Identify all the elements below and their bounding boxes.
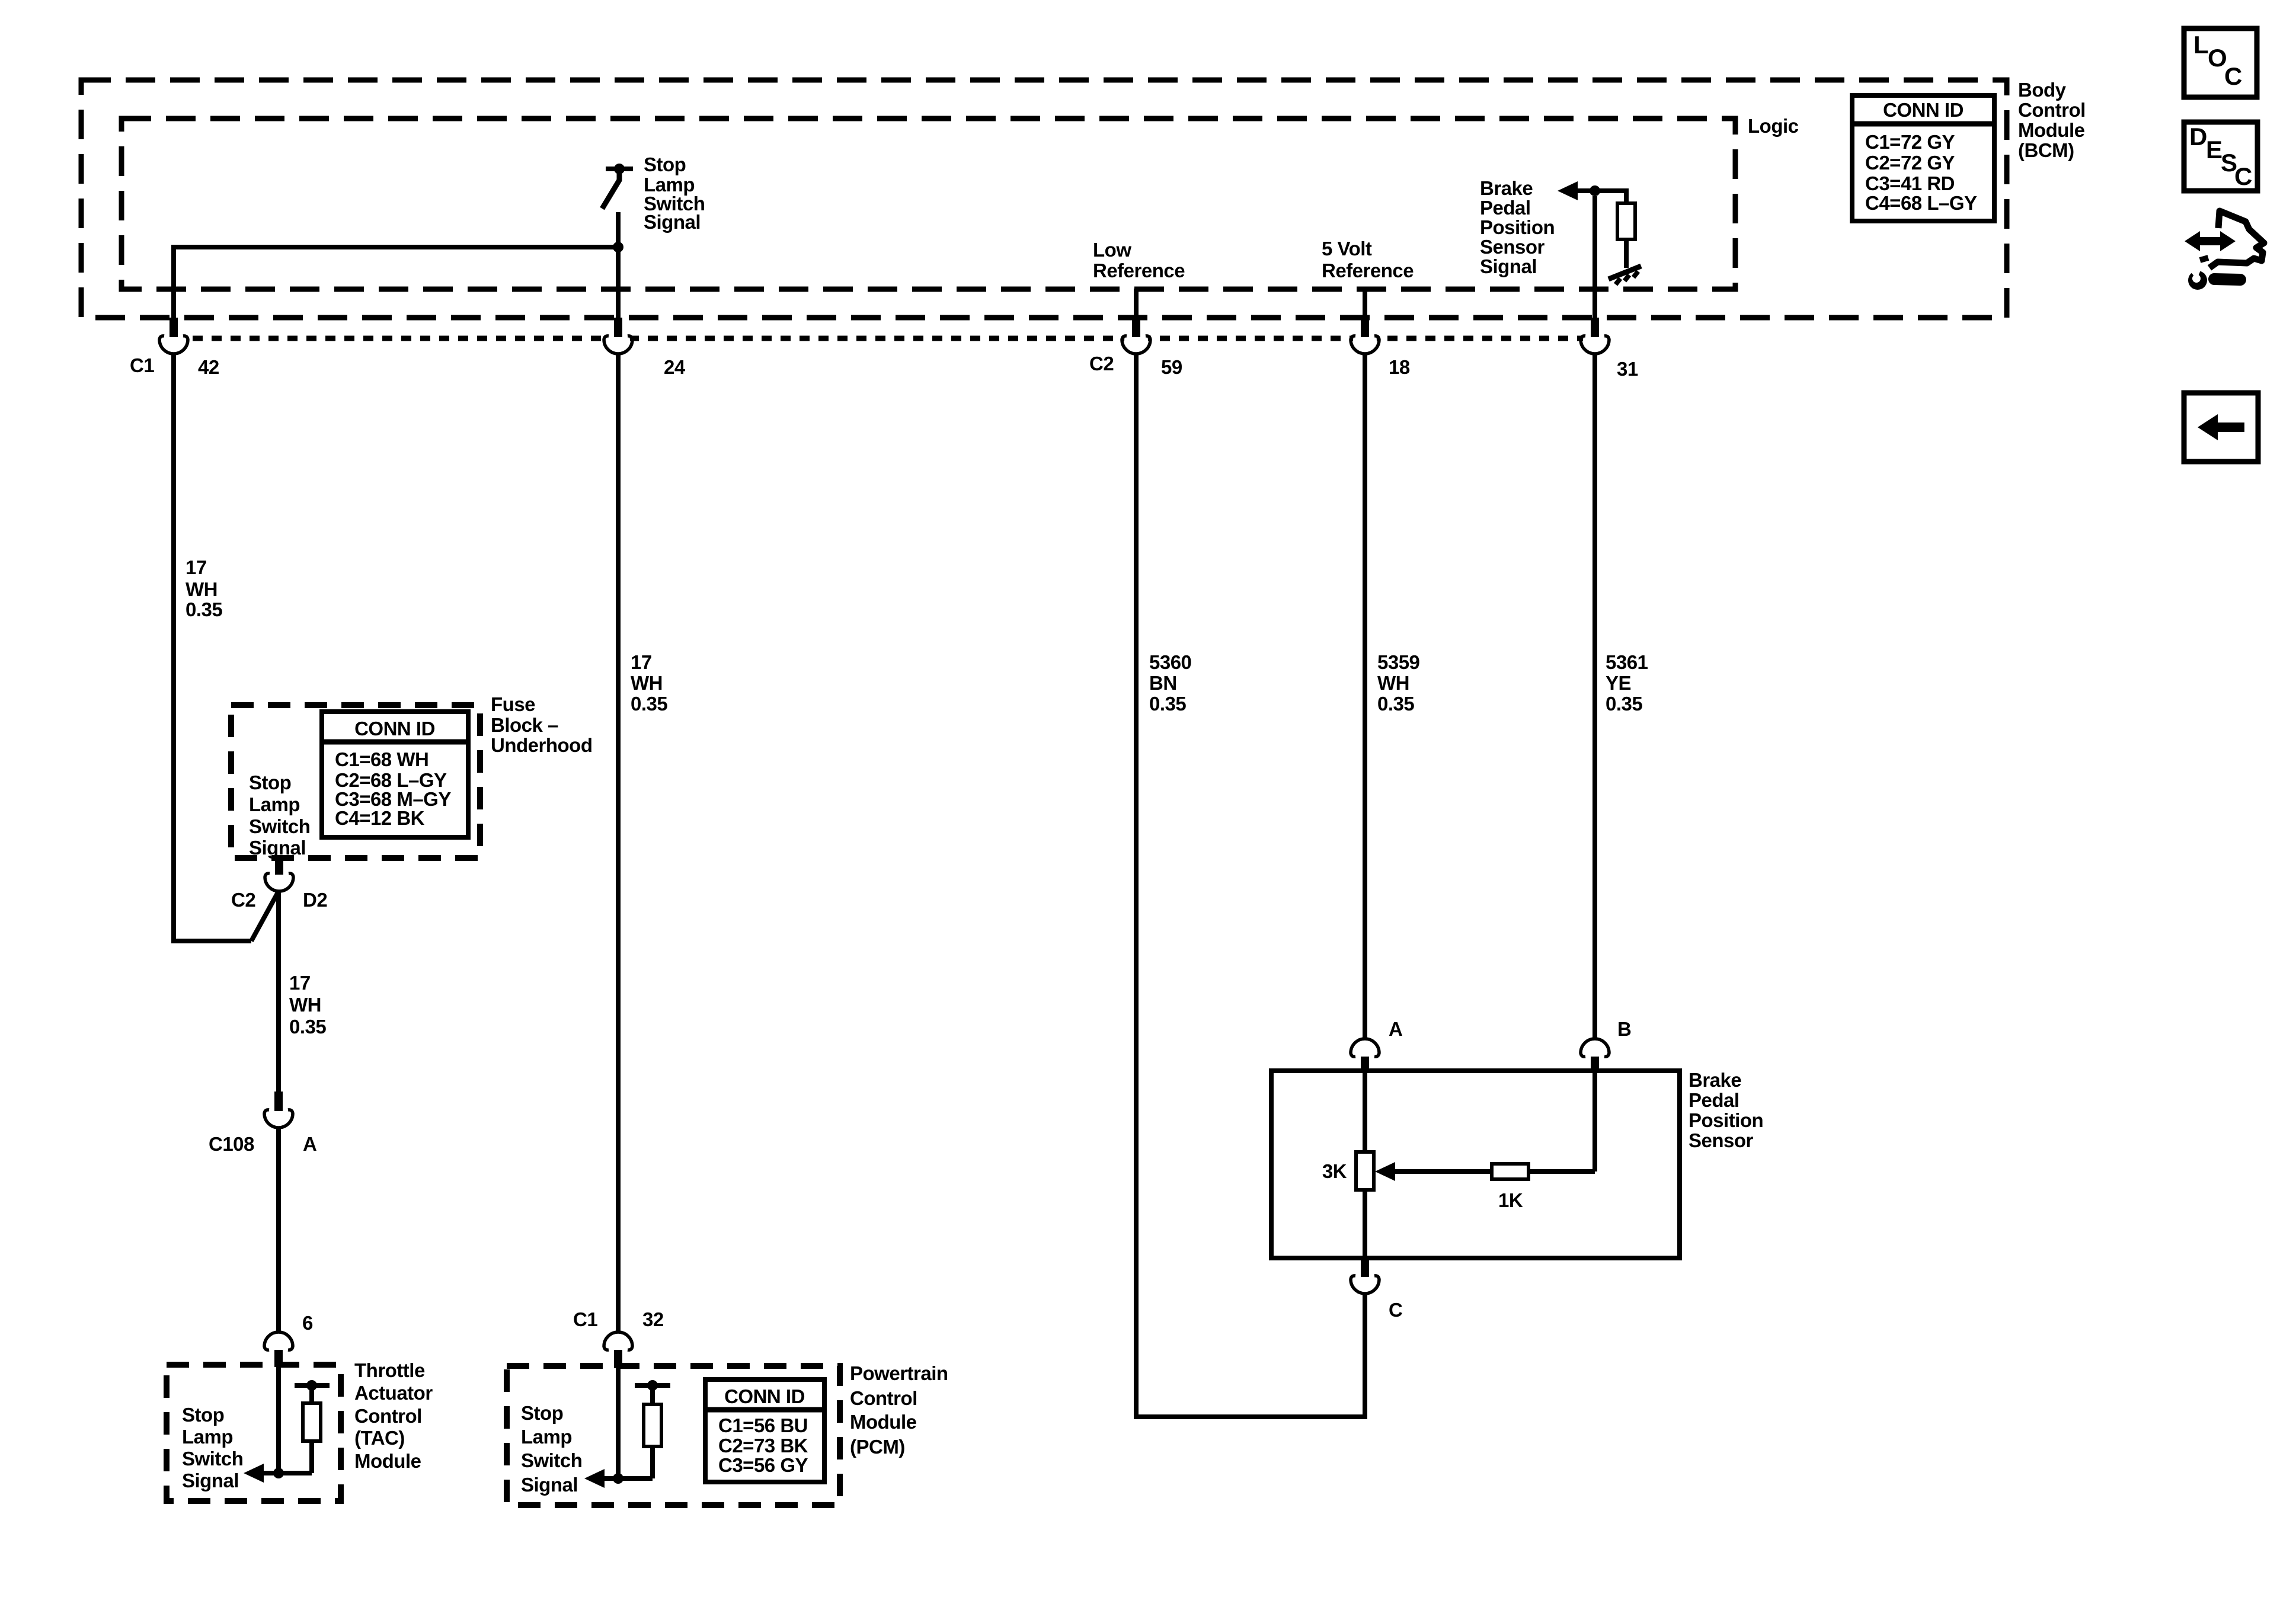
wire 17 WH 0.35 from D2 down to C108: [276, 891, 281, 1092]
wire: internal supply tick (TAC): [295, 1383, 330, 1388]
wire: Low Reference from logic to pin 59: [1134, 289, 1139, 320]
wire: low reference bottom run: [1134, 1414, 1367, 1419]
wire: horizontal jog to fuse block connector: [171, 939, 251, 943]
arrow into TAC logic: [244, 1464, 264, 1483]
icon: harness repair (double arrow + wrench): [2185, 211, 2264, 290]
junction inside PCM: [613, 1473, 623, 1484]
svg-text:32: 32: [642, 1308, 664, 1330]
wire: down to BCM connector C1 pin 42: [171, 245, 176, 320]
wire: internal horizontal (TAC): [263, 1471, 312, 1475]
wire: resistor lower lead (PCM): [650, 1446, 655, 1478]
wire: switch to junction: [616, 212, 621, 247]
arrow into PCM logic: [584, 1469, 605, 1488]
svg-text:C108: C108: [209, 1133, 254, 1155]
svg-text:C: C: [2234, 162, 2252, 190]
connector C1 cavity 42 (female): [159, 318, 188, 354]
wire 5361 YE 0.35 (BPP Sensor Signal): [1593, 353, 1597, 1038]
arrow into BCM logic (BPP sensor signal): [1558, 181, 1578, 200]
CONN ID table (PCM): [705, 1379, 824, 1482]
svg-text:31: 31: [1617, 358, 1638, 380]
wire: BPP signal down to BCM pin 31: [1593, 196, 1597, 320]
svg-text:24: 24: [664, 356, 686, 378]
wire: resistor upper lead (TAC): [309, 1388, 314, 1403]
wiper arrow of potentiometer: [1375, 1162, 1395, 1181]
wire: internal horizontal (PCM): [605, 1476, 653, 1481]
connector C2 cavity 59 (female): [1122, 318, 1150, 354]
svg-text:CONN ID: CONN ID: [1883, 99, 1964, 121]
wire: up to sensor pin C: [1363, 1295, 1367, 1417]
svg-text:C1: C1: [130, 354, 154, 376]
svg-text:6: 6: [302, 1312, 313, 1334]
switch S1: stop lamp switch: [602, 164, 633, 209]
dotted line: BCM connector face C1/C2: [174, 336, 1593, 341]
icon button DESC: [2184, 122, 2257, 191]
svg-text:A: A: [303, 1133, 316, 1155]
terminal stub into TAC module: [274, 1350, 283, 1367]
svg-text:B: B: [1617, 1018, 1631, 1040]
wire: horizontal run to BCM pin 42: [174, 245, 618, 249]
svg-text:A: A: [1389, 1018, 1402, 1040]
icon button: back arrow: [2184, 393, 2258, 462]
module box: Powertrain Control Module (PCM), dashed outline: [507, 1366, 840, 1505]
svg-text:C: C: [2224, 62, 2242, 90]
wire: pin A to potentiometer 3K: [1363, 1073, 1367, 1152]
connector terminal TAC pin 6 (male): [264, 1332, 293, 1350]
junction at PCM resistor top: [647, 1380, 658, 1391]
resistor (TAC internal): [303, 1403, 321, 1441]
resistor 1K (sensor): [1492, 1164, 1528, 1179]
svg-text:C1: C1: [573, 1308, 597, 1330]
wire: down to pull-up resistor: [1624, 188, 1629, 203]
svg-text:E: E: [2206, 136, 2223, 164]
wire: diagonal up to fuse block C2 cavity D2: [251, 891, 279, 941]
wire: sensor pin C down: [1363, 1294, 1367, 1417]
wire: arrow to resistor branch: [1576, 188, 1626, 193]
wire: PCM pin 32 internal: [616, 1368, 621, 1478]
wire: 5 Volt Reference from logic to pin 18: [1363, 289, 1367, 320]
module box: Body Control Module (BCM), dashed outline: [81, 80, 2007, 318]
svg-text:D2: D2: [303, 889, 327, 911]
potentiometer 3K (sensor): [1356, 1152, 1374, 1190]
junction inside TAC: [273, 1468, 284, 1478]
junction at switch output: [613, 242, 623, 252]
junction at TAC resistor top: [306, 1380, 317, 1391]
svg-text:Logic: Logic: [1748, 115, 1799, 137]
logic block inside BCM, dashed outline: [121, 119, 1735, 289]
chassis ground symbol (BCM internal): [1609, 266, 1641, 284]
wire: resistor lower lead (TAC): [309, 1441, 314, 1473]
svg-text:18: 18: [1389, 356, 1410, 378]
connector terminal sensor pin B (male): [1581, 1039, 1609, 1057]
icon button LOC: [2184, 28, 2257, 97]
connector C1 cavity 24 (female): [604, 318, 632, 354]
module box: Throttle Actuator Control (TAC) Module, dashed outline: [167, 1365, 341, 1501]
wire: pin B down to 1K resistor: [1593, 1073, 1597, 1172]
connector C2 cavity 31 (female): [1581, 318, 1609, 354]
resistor (PCM internal): [644, 1404, 661, 1446]
svg-text:59: 59: [1161, 356, 1182, 378]
wire: internal supply tick (PCM): [635, 1383, 670, 1388]
terminal stub into sensor (A): [1361, 1057, 1369, 1073]
wire: potentiometer to pin C: [1363, 1190, 1367, 1258]
component box: Brake Pedal Position Sensor: [1271, 1071, 1680, 1258]
CONN ID table (Fuse Block): [322, 712, 468, 837]
CONN ID table (BCM): [1852, 95, 1994, 221]
svg-text:CONN ID: CONN ID: [724, 1385, 805, 1407]
svg-text:3K: 3K: [1322, 1160, 1347, 1182]
svg-text:ThrottleActuatorControl(TAC)Mo: ThrottleActuatorControl(TAC)Module: [354, 1359, 433, 1472]
module box: Fuse Block - Underhood, dashed outline: [231, 705, 480, 858]
wire: C108 down to TAC module pin 6: [276, 1128, 281, 1331]
wire: TAC pin 6 internal: [276, 1367, 281, 1473]
svg-text:C2: C2: [231, 889, 255, 911]
svg-text:1K: 1K: [1498, 1189, 1523, 1211]
resistor (BCM internal pull-up): [1617, 203, 1635, 239]
wire 5359 WH 0.35 (5 Volt Reference): [1363, 353, 1367, 1038]
connector C108 cavity A: [264, 1092, 293, 1128]
wire 5360 BN 0.35 (Low Reference): [1134, 353, 1139, 1417]
svg-text:C2: C2: [1089, 353, 1114, 375]
wire: wiper to 1K resistor to pin B: [1393, 1169, 1595, 1174]
connector terminal PCM C1 pin 32 (male): [604, 1332, 632, 1350]
svg-text:C1=56 BUC2=73 BKC3=56 GY: C1=56 BUC2=73 BKC3=56 GY: [718, 1414, 808, 1476]
wire 17 WH 0.35 from pin 24 down to PCM: [616, 353, 621, 1331]
terminal stub into sensor (B): [1591, 1057, 1599, 1073]
connector terminal sensor pin C (female): [1351, 1258, 1379, 1294]
wire: resistor to chassis ground: [1624, 239, 1629, 268]
junction on BPP signal line: [1590, 185, 1600, 196]
connector C2 cavity 18 (female): [1351, 318, 1379, 354]
connector C2 cavity D2 (fuse block): [265, 858, 293, 891]
wire: resistor upper lead (PCM): [650, 1388, 655, 1404]
wire 17 WH 0.35 down from pin 42: [171, 353, 176, 941]
connector terminal sensor pin A (male): [1351, 1039, 1379, 1057]
svg-text:CONN ID: CONN ID: [354, 718, 435, 740]
wire: switch junction down to BCM pin 24: [616, 247, 621, 320]
svg-text:42: 42: [198, 356, 219, 378]
svg-text:D: D: [2189, 123, 2207, 151]
terminal stub into PCM: [614, 1350, 622, 1368]
svg-text:L: L: [2193, 31, 2208, 59]
svg-text:C: C: [1389, 1299, 1402, 1321]
